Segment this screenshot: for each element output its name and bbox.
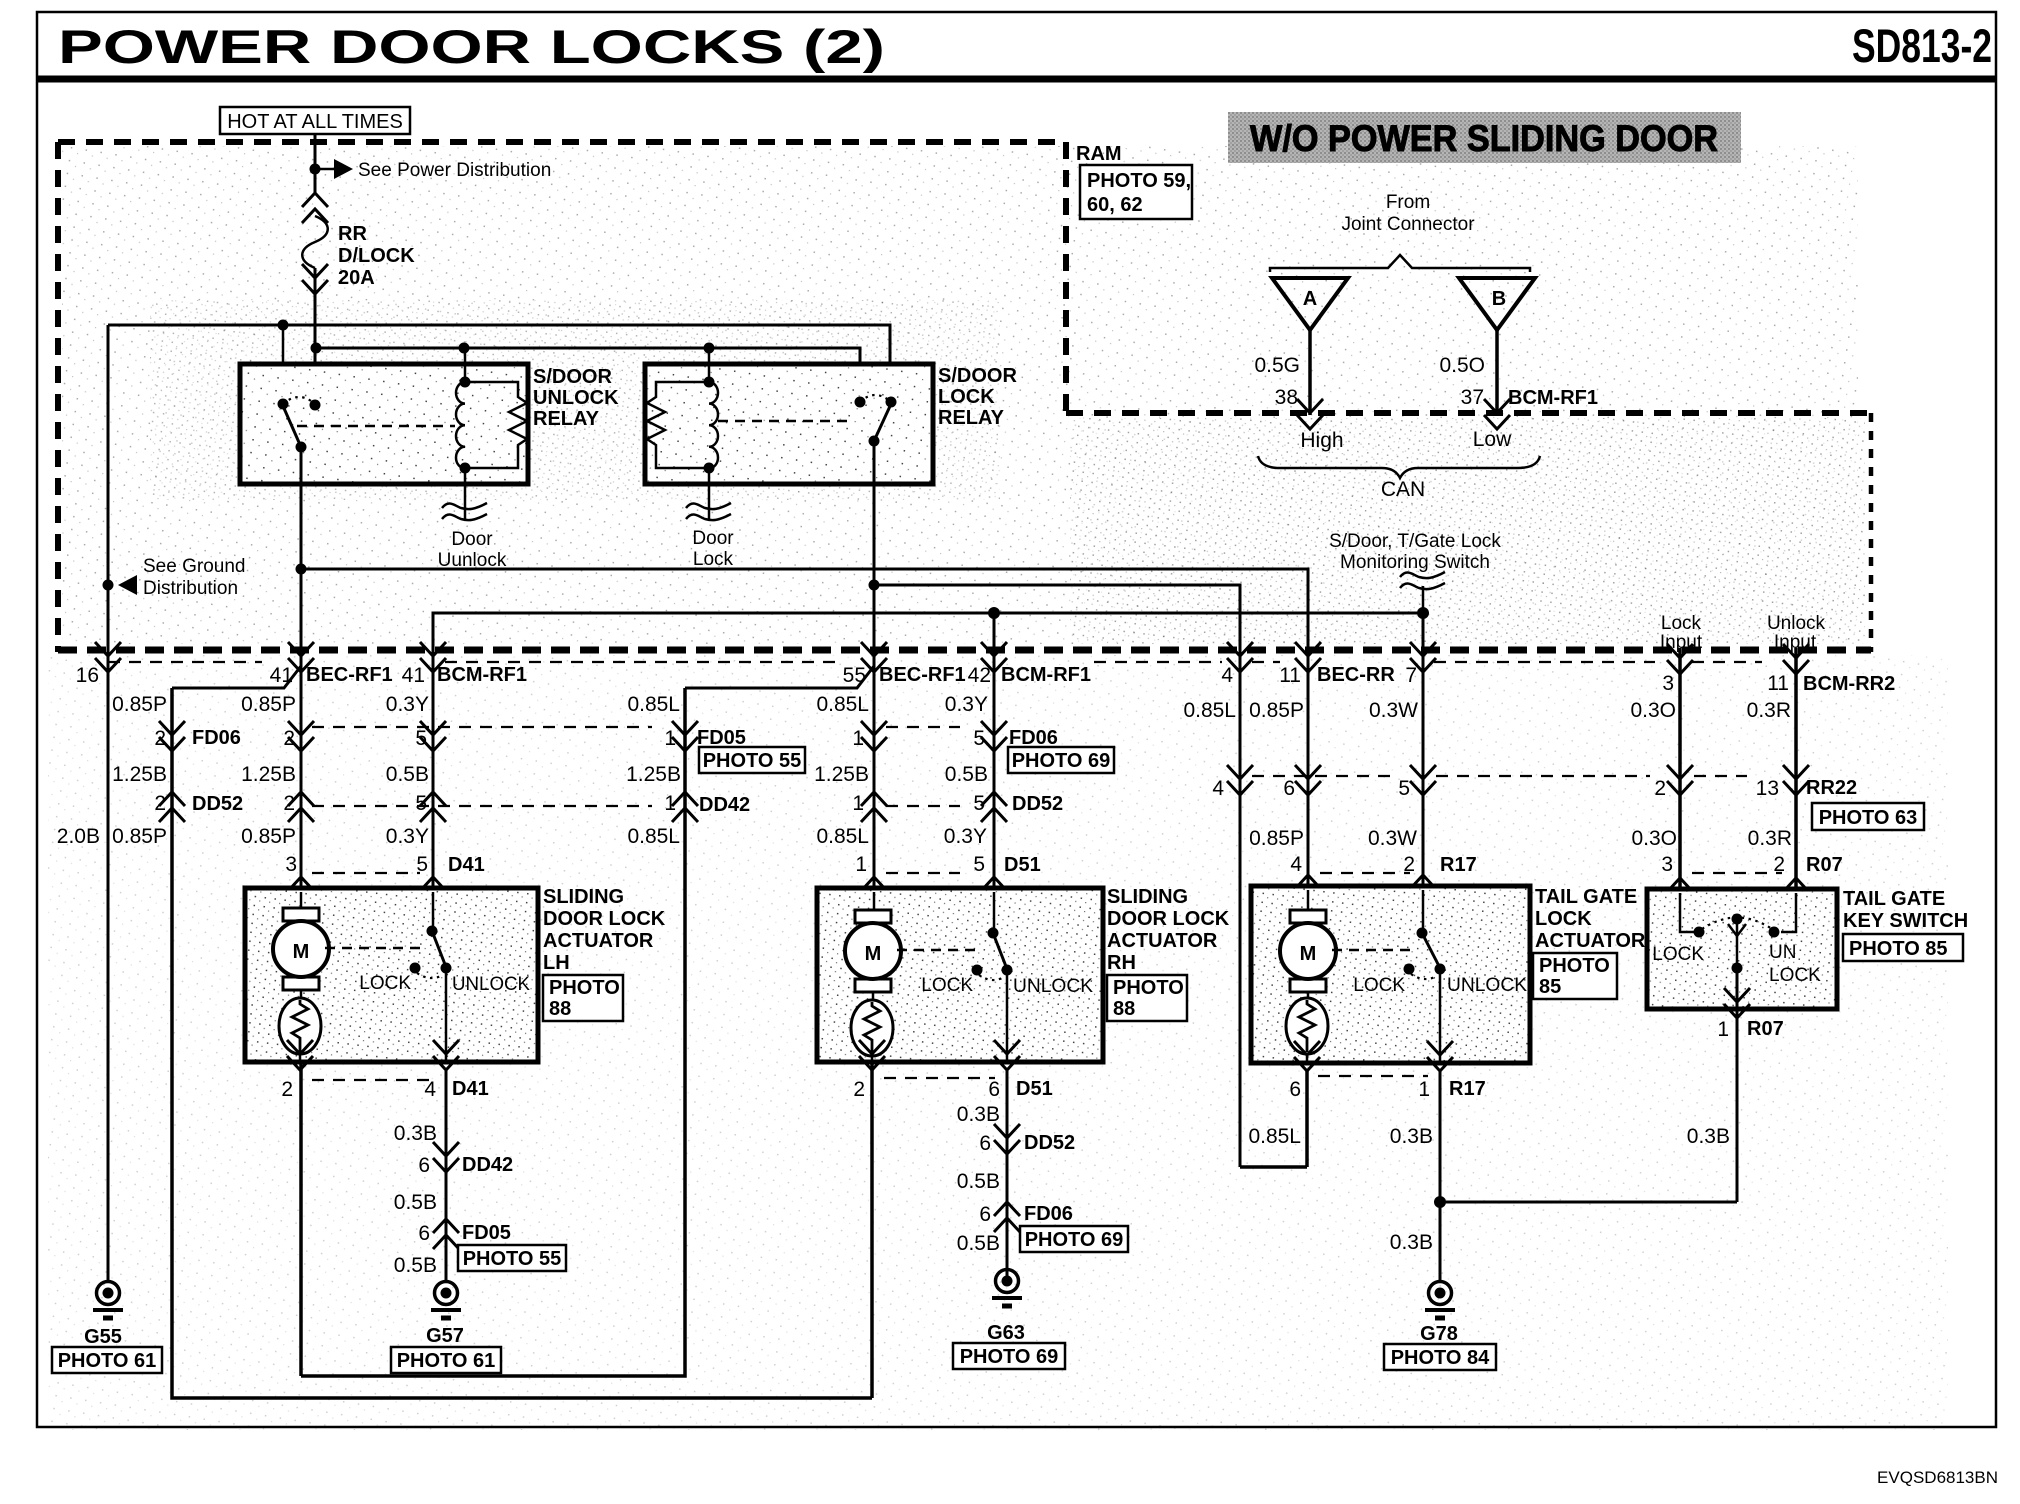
svg-text:D51: D51 (1016, 1078, 1053, 1100)
svg-text:4: 4 (1290, 853, 1302, 876)
svg-text:UNLOCK: UNLOCK (1447, 975, 1527, 996)
svg-text:CAN: CAN (1381, 478, 1425, 501)
svg-text:2.0B: 2.0B (57, 825, 100, 848)
wire BCM-RF1 41/42 link (y 613) (433, 613, 1423, 886)
svg-text:1: 1 (664, 727, 676, 750)
svg-text:R17: R17 (1449, 1078, 1486, 1100)
svg-text:0.85L: 0.85L (1183, 699, 1236, 722)
tail gate lock feed loop 0.85L (1305, 1071, 1309, 1167)
svg-text:0.85L: 0.85L (627, 693, 680, 716)
svg-text:PHOTO 69: PHOTO 69 (1025, 1229, 1124, 1251)
connector R07 pin 2 into key switch (1783, 878, 1809, 908)
svg-text:RH: RH (1107, 952, 1136, 974)
svg-text:HOT AT ALL TIMES: HOT AT ALL TIMES (227, 111, 403, 133)
connector row thin dashed (FD06/FD05 row y727) (312, 726, 652, 728)
svg-text:LOCK: LOCK (1535, 908, 1592, 930)
connector row thin dashed (BEC-RF1/BCM-RF1 row y662) (108, 661, 262, 663)
connector row thin dashed (R07 row y873) (1692, 872, 1782, 874)
wire A to pin 38 (1308, 330, 1312, 415)
relay K2 parallel resistor (647, 382, 709, 468)
svg-text:1.25B: 1.25B (241, 763, 296, 786)
svg-text:S/DOOR: S/DOOR (533, 366, 612, 388)
svg-text:85: 85 (1539, 976, 1561, 998)
svg-text:R07: R07 (1806, 854, 1843, 876)
connector row thin dashed (D51 row y873) (886, 872, 960, 874)
connector D51 pin 6 (RH switch out) (994, 1040, 1020, 1070)
svg-text:BCM-RF1: BCM-RF1 (1001, 664, 1091, 686)
dashed box inner right edge (x 1066) (1063, 142, 1069, 413)
svg-text:0.85P: 0.85P (241, 693, 296, 716)
svg-text:D51: D51 (1004, 854, 1041, 876)
svg-text:ACTUATOR: ACTUATOR (1107, 930, 1218, 952)
svg-text:0.3B: 0.3B (1390, 1231, 1433, 1254)
W/O POWER SLIDING DOOR banner (1228, 112, 1741, 163)
svg-text:0.3Y: 0.3Y (945, 693, 988, 716)
svg-text:High: High (1300, 429, 1343, 452)
svg-text:0.3B: 0.3B (394, 1122, 437, 1145)
svg-text:D/LOCK: D/LOCK (338, 245, 415, 267)
svg-text:Low: Low (1473, 428, 1512, 451)
connector D41 pin 5 into LH actuator (420, 877, 446, 907)
svg-text:RELAY: RELAY (533, 408, 600, 430)
svg-text:4: 4 (1221, 664, 1233, 687)
svg-text:41: 41 (270, 664, 293, 687)
hot-at-all-times dashed box top edge (58, 139, 1066, 145)
ground G57 (431, 1282, 461, 1319)
connector FD06 pin 5 (420, 721, 446, 751)
connector row thin dashed (D41 row y873) (312, 872, 420, 874)
svg-text:SLIDING: SLIDING (543, 886, 624, 908)
wire B to pin 37 (1495, 330, 1499, 415)
svg-text:D41: D41 (452, 1078, 489, 1100)
connector FD06 pin 1 (right) (861, 721, 887, 751)
dashed box left edge (55, 142, 61, 652)
svg-text:5: 5 (1398, 777, 1410, 800)
svg-text:S/DOOR: S/DOOR (938, 365, 1017, 387)
svg-text:3: 3 (285, 853, 297, 876)
svg-text:2: 2 (1403, 853, 1415, 876)
svg-text:1: 1 (664, 792, 676, 815)
svg-text:FD06: FD06 (1009, 727, 1058, 749)
svg-text:PHOTO: PHOTO (549, 977, 620, 999)
connector R17 pin 6 (TG motor out) (1294, 1041, 1320, 1071)
connector BCM-RR2 pin 11 (1783, 644, 1809, 674)
svg-text:RAM: RAM (1076, 143, 1122, 165)
wire BCM-RF1 42 column (993, 613, 996, 933)
svg-text:1.25B: 1.25B (112, 763, 167, 786)
relay K1 parallel resistor (465, 382, 527, 468)
svg-text:LOCK: LOCK (1652, 944, 1704, 965)
svg-text:R07: R07 (1747, 1018, 1784, 1040)
svg-text:PHOTO 61: PHOTO 61 (58, 1350, 157, 1372)
connector FD05 pin 6 (433, 1219, 459, 1249)
svg-text:0.5B: 0.5B (394, 1191, 437, 1214)
svg-text:0.3Y: 0.3Y (386, 693, 429, 716)
wire BEC-RF1 41 branch jog to FD06 column (172, 666, 301, 688)
joint connector B triangle (1459, 278, 1535, 330)
svg-text:PHOTO: PHOTO (1113, 977, 1184, 999)
svg-text:16: 16 (76, 664, 99, 687)
connector DD52 pin 2 (288, 792, 314, 822)
svg-text:DD52: DD52 (1012, 793, 1063, 815)
svg-text:6: 6 (418, 1154, 430, 1177)
bus wire (battery bus y=348) (316, 348, 860, 402)
svg-text:BCM-RF1: BCM-RF1 (1508, 387, 1598, 409)
svg-text:DD42: DD42 (462, 1154, 513, 1176)
svg-text:37: 37 (1461, 386, 1484, 409)
node relay1 pivot tap on bus (278, 320, 289, 331)
svg-text:G57: G57 (426, 1325, 464, 1347)
svg-text:0.85L: 0.85L (816, 693, 869, 716)
svg-text:From: From (1386, 192, 1430, 213)
svg-text:11: 11 (1767, 672, 1789, 695)
svg-text:Joint Connector: Joint Connector (1341, 214, 1475, 235)
svg-text:5: 5 (415, 727, 427, 750)
svg-text:SD813-2: SD813-2 (1852, 19, 1992, 72)
connector DD52 pin 1 (right) (861, 792, 887, 822)
svg-text:PHOTO 55: PHOTO 55 (463, 1248, 562, 1270)
battery feed wire from HOT box (314, 134, 317, 193)
svg-text:ACTUATOR: ACTUATOR (543, 930, 654, 952)
svg-text:LOCK: LOCK (1353, 975, 1405, 996)
svg-text:88: 88 (1113, 998, 1135, 1020)
RAM photo box PHOTO 59, 60, 62 (1080, 165, 1192, 219)
connector R07 pin 1 (key switch out) (1724, 988, 1750, 1018)
svg-text:TAIL GATE: TAIL GATE (1843, 888, 1945, 910)
ground G78 (1425, 1282, 1455, 1319)
connector D51 pin 2 (RH motor out) (859, 1040, 885, 1070)
svg-text:LOCK: LOCK (1769, 965, 1821, 986)
svg-text:PHOTO: PHOTO (1539, 955, 1610, 977)
svg-text:DOOR LOCK: DOOR LOCK (543, 908, 666, 930)
svg-text:6: 6 (1283, 777, 1295, 800)
connector BCM-RF1 pin 42 (981, 642, 1007, 672)
svg-text:0.85P: 0.85P (112, 693, 167, 716)
column x=1423 (7 BEC-RR / monitoring) (1422, 613, 1425, 933)
motor M LH (300, 892, 303, 908)
pin 38 connector chevron (1297, 399, 1323, 429)
connector RR22 pin 2 (1667, 765, 1693, 795)
svg-text:RELAY: RELAY (938, 407, 1005, 429)
svg-text:0.5B: 0.5B (394, 1254, 437, 1277)
relay K2 internal dashed link (718, 420, 852, 423)
svg-text:S/Door, T/Gate Lock: S/Door, T/Gate Lock (1329, 531, 1501, 552)
connector BCM-RF1 pin 41 (420, 642, 446, 672)
svg-text:0.3Y: 0.3Y (944, 825, 987, 848)
svg-text:1: 1 (1717, 1018, 1729, 1041)
wire relay1 output down (x 300) (300, 447, 303, 908)
svg-text:2: 2 (1654, 777, 1666, 800)
svg-text:5: 5 (973, 853, 985, 876)
pin 37 connector chevron (1484, 399, 1510, 429)
connector BEC-RF1 pin 41 (288, 642, 314, 672)
connector D51 pin 1 into RH actuator (861, 877, 887, 907)
connector RR22 pin 4 (1227, 765, 1253, 795)
bracket over joint connector triangles (1270, 255, 1530, 272)
svg-text:5: 5 (416, 853, 428, 876)
RH actuator switch (993, 892, 996, 933)
svg-text:6: 6 (988, 1078, 1000, 1101)
svg-text:42: 42 (968, 664, 991, 687)
arrow to See Power Distribution (320, 168, 334, 171)
tail gate unlock return to G78 (1439, 1071, 1442, 1281)
svg-text:Lock: Lock (693, 549, 734, 570)
svg-text:POWER DOOR LOCKS (2): POWER DOOR LOCKS (2) (58, 20, 885, 73)
svg-text:1.25B: 1.25B (814, 763, 869, 786)
node BCM-RF1 42 tap (988, 607, 1000, 619)
svg-text:0.85P: 0.85P (241, 825, 296, 848)
svg-text:BCM-RF1: BCM-RF1 (437, 664, 527, 686)
svg-text:PHOTO 63: PHOTO 63 (1819, 807, 1918, 829)
svg-text:88: 88 (549, 998, 571, 1020)
svg-text:3: 3 (1661, 853, 1673, 876)
svg-text:See Ground: See Ground (143, 556, 245, 577)
connector DD52 pin 6 (994, 1124, 1020, 1154)
node relay1 coil tap (459, 343, 470, 354)
svg-text:LOCK: LOCK (938, 386, 995, 408)
connector row thin dashed (RR22 row y776) (1252, 775, 1392, 777)
svg-text:6: 6 (418, 1222, 430, 1245)
wire BEC-RF1 55 branch jog to FD05 column (685, 666, 874, 688)
svg-text:0.3R: 0.3R (1747, 699, 1791, 722)
wire relay2 output down (x 874) (873, 441, 876, 908)
svg-text:60, 62: 60, 62 (1087, 194, 1143, 216)
svg-text:0.5O: 0.5O (1439, 354, 1485, 377)
svg-text:PHOTO 85: PHOTO 85 (1849, 938, 1948, 960)
svg-text:ACTUATOR: ACTUATOR (1535, 930, 1646, 952)
svg-text:0.3W: 0.3W (1368, 827, 1417, 850)
svg-text:0.3B: 0.3B (1687, 1125, 1730, 1148)
svg-text:0.85L: 0.85L (627, 825, 680, 848)
svg-text:0.3Y: 0.3Y (386, 825, 429, 848)
connector BEC-RF1 pin 55 (861, 642, 887, 672)
svg-text:0.5B: 0.5B (957, 1170, 1000, 1193)
svg-text:UNLOCK: UNLOCK (533, 387, 619, 409)
svg-text:BEC-RF1: BEC-RF1 (306, 664, 393, 686)
dashed box right edge (x 1871) (1869, 413, 1874, 652)
relay K1 coil (464, 348, 467, 382)
connector row thin dashed (R17 row y873) (1320, 872, 1410, 874)
svg-text:0.3O: 0.3O (1630, 699, 1676, 722)
svg-text:4: 4 (1212, 777, 1224, 800)
sliding door lock actuator RH box (817, 888, 1103, 1062)
svg-text:0.3W: 0.3W (1369, 699, 1418, 722)
LH actuator switch (432, 892, 435, 931)
column x=1680 (3 BCM-RR2 lock input) (1678, 648, 1682, 932)
relay K1 switch (278, 399, 289, 410)
connector BEC-RR pin 11 (1295, 642, 1321, 672)
svg-text:FD06: FD06 (1024, 1203, 1073, 1225)
node monitoring switch junction (1417, 607, 1429, 619)
key switch contacts (1680, 893, 1694, 932)
connector R17 pin 1 (TG switch out) (1427, 1041, 1453, 1071)
svg-text:0.85P: 0.85P (1249, 699, 1304, 722)
connector FD06 pin 6 (994, 1202, 1020, 1232)
tail gate actuator switch (1422, 890, 1425, 933)
svg-text:UN: UN (1769, 942, 1796, 963)
svg-text:Door: Door (451, 529, 493, 550)
ground G63 (992, 1270, 1022, 1307)
connector FD06 pin 2 (288, 721, 314, 751)
node relay2 output to BEC-RR 4 (869, 580, 880, 591)
svg-text:55: 55 (843, 664, 866, 687)
connector BEC-RF1 pin 16 (95, 642, 121, 672)
svg-text:2: 2 (283, 792, 295, 815)
svg-text:Unlock: Unlock (1767, 613, 1826, 634)
relay K1 coil output wire to Door Uunlock (464, 468, 467, 519)
svg-text:G78: G78 (1420, 1323, 1458, 1345)
svg-text:0.3B: 0.3B (1390, 1125, 1433, 1148)
motor M tail gate (1307, 890, 1310, 910)
header separator rule (37, 76, 1996, 83)
svg-text:11: 11 (1279, 664, 1301, 687)
connector BEC-RR pin 7 (1410, 642, 1436, 672)
svg-text:PHOTO 59,: PHOTO 59, (1087, 170, 1191, 192)
svg-text:5: 5 (973, 727, 985, 750)
relay K2 S/DOOR LOCK RELAY box (645, 364, 933, 484)
svg-text:1: 1 (1418, 1078, 1430, 1101)
node: see power distribution tap (310, 164, 321, 175)
svg-text:BEC-RF1: BEC-RF1 (879, 664, 966, 686)
svg-text:38: 38 (1275, 386, 1298, 409)
svg-text:6: 6 (979, 1203, 991, 1226)
svg-text:R17: R17 (1440, 854, 1477, 876)
svg-text:BCM-RR2: BCM-RR2 (1803, 673, 1895, 695)
connector DD42 pin 6 (433, 1142, 459, 1172)
svg-text:0.5B: 0.5B (945, 763, 988, 786)
See Ground Distribution arrow (103, 580, 114, 591)
svg-text:0.5B: 0.5B (386, 763, 429, 786)
relay K2 coil (708, 348, 711, 382)
svg-text:13: 13 (1756, 777, 1779, 800)
joint connector A triangle (1272, 278, 1348, 330)
tail gate key switch box (1647, 889, 1837, 1009)
sliding door lock actuator LH box (245, 888, 538, 1062)
svg-text:0.85P: 0.85P (1249, 827, 1304, 850)
key switch output pin 1 R07 (1736, 968, 1739, 1202)
wire FD06/DD52 column x=172 to RH door loop (172, 688, 872, 1398)
svg-text:20A: 20A (338, 267, 375, 289)
svg-text:G63: G63 (987, 1322, 1025, 1344)
LH unlock return to ground G57 (445, 1070, 448, 1281)
svg-text:2: 2 (283, 727, 295, 750)
node fuse to battery bus (311, 343, 322, 354)
connector FD06 pin 2 (RH feed) (159, 721, 185, 751)
svg-text:RR: RR (338, 223, 367, 245)
connector D41 pin 4 (LH switch out) (433, 1040, 459, 1070)
CAN brace (1258, 456, 1540, 478)
connector RR22 pin 6 (1295, 765, 1321, 795)
svg-text:D41: D41 (448, 854, 485, 876)
connector D41 pin 2 (LH motor out) (287, 1040, 313, 1070)
bus wire (ground distribution bus y=325) (108, 325, 890, 402)
svg-text:Lock: Lock (1661, 613, 1702, 634)
svg-text:RR22: RR22 (1806, 777, 1857, 799)
svg-text:1.25B: 1.25B (626, 763, 681, 786)
svg-text:PHOTO 69: PHOTO 69 (960, 1346, 1059, 1368)
svg-text:PHOTO 84: PHOTO 84 (1391, 1347, 1490, 1369)
svg-text:0.85L: 0.85L (1248, 1125, 1301, 1148)
svg-text:FD06: FD06 (192, 727, 241, 749)
svg-text:DD52: DD52 (1024, 1132, 1075, 1154)
svg-text:LH: LH (543, 952, 570, 974)
svg-text:BEC-RR: BEC-RR (1317, 664, 1395, 686)
svg-text:PHOTO 61: PHOTO 61 (397, 1350, 496, 1372)
dashed box mid horizontal edge (y 413) (1066, 410, 1871, 416)
svg-text:2: 2 (853, 1078, 865, 1101)
svg-text:DD42: DD42 (699, 794, 750, 816)
column x=1796 (11 BCM-RR2 unlock input) (1794, 648, 1798, 932)
RH unlock return to ground G63 (1006, 1070, 1009, 1280)
connector R17 pin 4 into tailgate actuator (1295, 875, 1321, 905)
wire lock feed to pin 4 BEC-RR (y 585) (874, 585, 1240, 1167)
svg-text:FD05: FD05 (697, 727, 746, 749)
wire FD05/DD42 column x=685 to LH door loop (301, 688, 685, 1376)
connector FD05 pin 1 (672, 721, 698, 751)
wire LH actuator pin2 drop (299, 1062, 303, 1376)
dashed box bottom edge / connector row (y 650) (58, 647, 1871, 654)
svg-text:2: 2 (154, 792, 166, 815)
relay K2 coil output wire to Door Lock (708, 468, 711, 519)
svg-text:0.85P: 0.85P (112, 825, 167, 848)
svg-text:2: 2 (1773, 853, 1785, 876)
svg-text:1: 1 (852, 792, 864, 815)
wire bus to relay1 pivot (282, 325, 285, 404)
svg-text:Distribution: Distribution (143, 578, 238, 599)
svg-text:UNLOCK: UNLOCK (1013, 976, 1093, 997)
wire unlock feed to pin 11 BEC-RR (y 569) (301, 569, 1308, 886)
svg-text:LOCK: LOCK (921, 975, 973, 996)
svg-text:See Power Distribution: See Power Distribution (358, 160, 551, 181)
relay K2 switch (855, 397, 866, 408)
node relay2 coil tap (704, 343, 715, 354)
svg-text:0.3O: 0.3O (1631, 827, 1677, 850)
ground G55 (93, 1282, 123, 1319)
relay K1 internal dashed link (297, 425, 455, 428)
svg-text:1: 1 (855, 853, 867, 876)
svg-text:W/O POWER SLIDING DOOR: W/O POWER SLIDING DOOR (1250, 118, 1718, 159)
tail gate lock actuator box (1251, 886, 1530, 1063)
svg-text:0.5G: 0.5G (1254, 354, 1300, 377)
svg-text:0.85L: 0.85L (816, 825, 869, 848)
svg-text:1: 1 (852, 727, 864, 750)
relay K1 S/DOOR UNLOCK RELAY box (240, 364, 528, 484)
svg-text:3: 3 (1662, 672, 1674, 695)
connector FD06 pin 5 (right) (981, 721, 1007, 751)
connector R17 pin 2 into tailgate actuator (1410, 875, 1436, 905)
svg-text:5: 5 (973, 792, 985, 815)
svg-text:DOOR LOCK: DOOR LOCK (1107, 908, 1230, 930)
node relay1 output to BEC-RR 11 (296, 564, 307, 575)
wire RH actuator pin2 drop (870, 1062, 874, 1398)
svg-text:FD05: FD05 (462, 1222, 511, 1244)
svg-text:B: B (1492, 288, 1506, 310)
connector RR22 pin 13 (1783, 765, 1809, 795)
svg-text:6: 6 (1289, 1078, 1301, 1101)
svg-text:LOCK: LOCK (359, 973, 411, 994)
wire left trunk x=108 down to ground G55 (107, 325, 110, 1281)
connector DD52 pin 2 (RH feed) (159, 792, 185, 822)
svg-text:0.5B: 0.5B (957, 1232, 1000, 1255)
svg-text:SLIDING: SLIDING (1107, 886, 1188, 908)
svg-text:PHOTO 69: PHOTO 69 (1012, 750, 1111, 772)
connector D51 pin 5 into RH actuator (981, 877, 1007, 907)
svg-text:2: 2 (281, 1078, 293, 1101)
connector row thin dashed (DD52/DD42 row y806) (312, 805, 652, 807)
HOT AT ALL TIMES label box (220, 107, 410, 134)
svg-text:0.3B: 0.3B (957, 1103, 1000, 1126)
wire fuse to relay contact (314, 268, 317, 405)
